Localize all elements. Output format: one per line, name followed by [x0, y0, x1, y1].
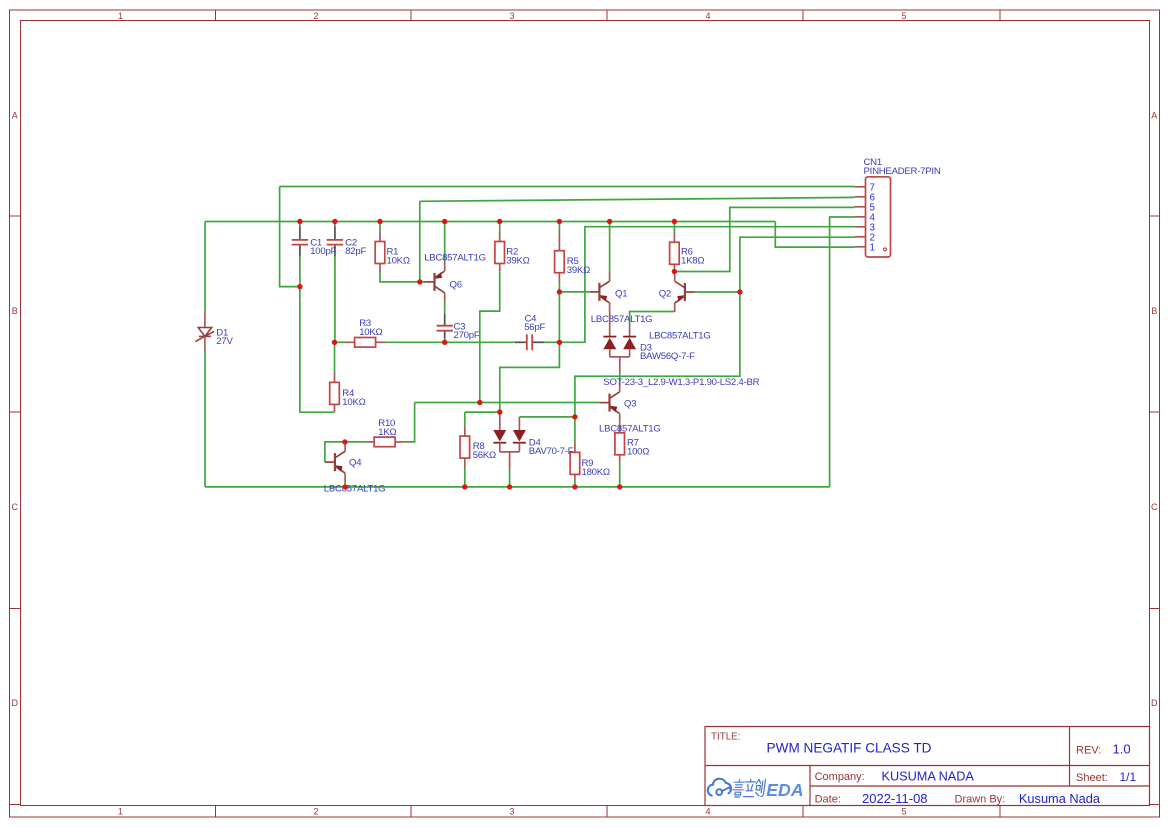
- wire rail to CN1 pin1: [775, 222, 854, 248]
- svg-text:A: A: [12, 111, 18, 121]
- wire rail to R5: [558, 222, 560, 230]
- svg-text:C: C: [12, 502, 19, 512]
- wire R3 right to C4 left: [386, 341, 515, 343]
- svg-text:B: B: [1151, 306, 1157, 316]
- svg-text:REV:: REV:: [1076, 744, 1101, 756]
- svg-text:Q6: Q6: [450, 279, 462, 290]
- transistor Q1: [589, 272, 609, 312]
- junction: [737, 289, 742, 294]
- wire main top rail: [205, 221, 775, 223]
- svg-text:PINHEADER-7PIN: PINHEADER-7PIN: [864, 166, 941, 177]
- junction: [297, 284, 302, 289]
- wire R5 node down to C4 node: [558, 292, 560, 342]
- wire R1 bottom to Q6 base node: [380, 272, 425, 282]
- junction: [297, 219, 302, 224]
- label C1: [310, 237, 336, 257]
- svg-text:BAW56Q-7-F: BAW56Q-7-F: [640, 351, 695, 362]
- wire rail to Q6 emitter: [444, 222, 446, 262]
- wire C4 node to CN1 pin3: [559, 227, 854, 343]
- wire node to R4 top: [334, 342, 336, 372]
- wire CN1 pin6 diagonal: [420, 197, 855, 201]
- svg-text:82pF: 82pF: [345, 246, 366, 257]
- svg-text:100Ω: 100Ω: [627, 446, 649, 457]
- svg-text:2: 2: [313, 11, 318, 21]
- transistor Q4: [325, 442, 345, 482]
- zener diode D1: [195, 312, 214, 351]
- wire D3 right pin: [629, 324, 631, 337]
- svg-text:SOT-23-3_L2.9-W1.3-P1.90-LS2.4: SOT-23-3_L2.9-W1.3-P1.90-LS2.4-BR: [603, 377, 759, 388]
- junction: [557, 340, 562, 345]
- resistor R8: [460, 426, 470, 468]
- junction: [497, 219, 502, 224]
- svg-text:Kusuma Nada: Kusuma Nada: [1019, 791, 1101, 806]
- dual diode D3: [603, 337, 636, 372]
- svg-text:10KΩ: 10KΩ: [342, 397, 365, 408]
- junction: [672, 219, 677, 224]
- wire rail to R2: [499, 222, 501, 232]
- wire left rail upper: [204, 222, 206, 313]
- wire bottom rail to CN1 pin4: [830, 217, 855, 487]
- svg-text:D: D: [12, 698, 19, 708]
- wire to R4 bottom: [300, 287, 335, 413]
- wire D4 tap to rail: [509, 469, 511, 487]
- title texts: [711, 732, 1137, 806]
- wire Q6 collector to C3: [444, 302, 446, 314]
- svg-text:LBC857ALT1G: LBC857ALT1G: [324, 484, 386, 495]
- wire D4 left node: [465, 411, 500, 413]
- wire R8 bottom to rail: [464, 468, 466, 487]
- label R3: [359, 318, 382, 338]
- label C3: [454, 321, 480, 341]
- wire left rail lower: [204, 351, 206, 487]
- transistor Q6: [425, 262, 445, 302]
- label R8: [473, 441, 496, 461]
- wire R9 bottom to rail: [574, 480, 576, 487]
- wire C1 bottom: [299, 257, 301, 287]
- label R9: [582, 458, 610, 478]
- wire pin6 vertical to Q6 base: [419, 201, 421, 282]
- svg-text:BAV70-7-F: BAV70-7-F: [529, 446, 574, 457]
- svg-text:Date:: Date:: [815, 794, 841, 806]
- svg-text:3: 3: [509, 806, 514, 816]
- junction: [607, 219, 612, 224]
- wire Q2 emitter to D3 right: [630, 312, 675, 325]
- wire rail to R6: [673, 222, 675, 233]
- wire CN1 pin7 net: [280, 186, 855, 188]
- wire CN1 pin2 net: [575, 237, 855, 417]
- CN1 pin numbers: [870, 182, 876, 253]
- label R2: [506, 246, 529, 266]
- label R7: [627, 438, 649, 458]
- svg-text:EDA: EDA: [766, 780, 803, 800]
- svg-text:2022-11-08: 2022-11-08: [862, 791, 928, 806]
- wire node to R9 top: [574, 417, 576, 443]
- svg-text:39KΩ: 39KΩ: [506, 255, 529, 266]
- label D4: [529, 437, 574, 457]
- label C4: [524, 314, 545, 334]
- label D1: [216, 327, 233, 347]
- resistor R4: [330, 372, 340, 412]
- label R10: [378, 418, 396, 438]
- wire rail to C1: [299, 222, 301, 227]
- junction: [672, 269, 677, 274]
- svg-text:TITLE:: TITLE:: [711, 732, 740, 743]
- svg-text:56pF: 56pF: [524, 322, 545, 333]
- wire rail to Q1 collector: [609, 222, 611, 272]
- connector CN1: [855, 177, 891, 257]
- resistor R7: [615, 423, 625, 463]
- label R6: [681, 247, 704, 267]
- svg-text:10KΩ: 10KΩ: [387, 255, 410, 266]
- wire R5 bottom: [558, 282, 560, 292]
- wire R10 right riser: [405, 403, 415, 442]
- svg-text:C: C: [1151, 502, 1158, 512]
- junction: [442, 219, 447, 224]
- svg-text:LBC857ALT1G: LBC857ALT1G: [599, 424, 661, 435]
- resistor R3: [345, 338, 386, 348]
- wire to R8 top: [464, 412, 466, 426]
- wire Q3 base net horizontal: [415, 402, 600, 404]
- svg-text:4: 4: [705, 806, 710, 816]
- junction: [377, 219, 382, 224]
- label CN1: [864, 157, 941, 177]
- svg-text:Q1: Q1: [615, 288, 627, 299]
- wire Q4 emitter to rail: [344, 482, 346, 487]
- svg-text:1: 1: [870, 242, 875, 253]
- junction: [557, 219, 562, 224]
- transistor Q2: [675, 272, 695, 312]
- svg-text:A: A: [1151, 111, 1157, 121]
- junction: [342, 439, 347, 444]
- wire pin7 net drop to C1: [280, 187, 300, 287]
- svg-text:5: 5: [901, 11, 906, 21]
- wire C4 node down to D4 left node: [500, 342, 560, 412]
- svg-text:B: B: [12, 306, 18, 316]
- junction: [342, 484, 347, 489]
- svg-text:LBC857ALT1G: LBC857ALT1G: [591, 314, 653, 325]
- transistor Q3: [600, 383, 620, 423]
- capacitor C3: [437, 314, 453, 339]
- wire C3 bottom to node: [444, 339, 446, 343]
- svg-text:1/1: 1/1: [1120, 770, 1137, 784]
- junction: [617, 484, 622, 489]
- wire node to R3 left: [335, 341, 345, 343]
- svg-text:Drawn By:: Drawn By:: [955, 794, 1006, 806]
- wire Q2 base to pin2 vertical: [695, 291, 740, 293]
- svg-text:180KΩ: 180KΩ: [582, 467, 610, 478]
- wire C2 bottom to R3 node: [334, 257, 336, 343]
- svg-text:56KΩ: 56KΩ: [473, 450, 496, 461]
- label R1: [387, 246, 410, 266]
- svg-text:3: 3: [509, 11, 514, 21]
- wire R7 bottom to rail: [619, 462, 621, 487]
- svg-text:Sheet:: Sheet:: [1076, 772, 1108, 784]
- wire R2 bottom to Q3 base net: [480, 271, 500, 402]
- junction: [462, 484, 467, 489]
- resistor R9: [570, 442, 580, 480]
- title block: [705, 727, 1150, 806]
- capacitor C2: [327, 226, 343, 256]
- junction: [442, 340, 447, 345]
- svg-text:5: 5: [901, 806, 906, 816]
- svg-text:100pF: 100pF: [310, 246, 336, 257]
- resistor R2: [495, 232, 505, 272]
- svg-text:1K8Ω: 1K8Ω: [681, 256, 704, 267]
- svg-text:KUSUMA NADA: KUSUMA NADA: [882, 769, 975, 783]
- svg-text:4: 4: [705, 11, 710, 21]
- resistor R10: [365, 437, 405, 447]
- label R4: [342, 388, 365, 408]
- svg-text:LBC857ALT1G: LBC857ALT1G: [649, 331, 711, 342]
- JLC EDA logo: [708, 779, 804, 800]
- junction: [332, 219, 337, 224]
- resistor R5: [555, 229, 565, 282]
- dual diode D4: [493, 412, 526, 469]
- resistor R6: [670, 232, 680, 271]
- wire C4 right to node: [544, 341, 559, 343]
- capacitor C1: [292, 226, 308, 256]
- svg-text:1KΩ: 1KΩ: [378, 427, 396, 438]
- label D3: [640, 342, 695, 362]
- label C2: [345, 237, 366, 257]
- junction: [417, 279, 422, 284]
- svg-text:LBC857ALT1G: LBC857ALT1G: [424, 252, 486, 263]
- resistor R1: [375, 232, 385, 273]
- svg-text:Q4: Q4: [349, 457, 362, 468]
- svg-text:D: D: [1151, 698, 1158, 708]
- wire R6 bottom to CN1 pin5: [674, 207, 854, 271]
- svg-text:10KΩ: 10KΩ: [359, 327, 382, 338]
- svg-text:1: 1: [118, 806, 123, 816]
- svg-text:Q3: Q3: [624, 399, 636, 410]
- wire node to Q1 base: [559, 291, 589, 293]
- svg-text:39KΩ: 39KΩ: [567, 265, 590, 276]
- junction: [557, 289, 562, 294]
- junction: [572, 484, 577, 489]
- junction: [572, 414, 577, 419]
- wire Q4 base loop: [325, 442, 345, 462]
- wire rail to R1: [379, 222, 381, 232]
- svg-text:27V: 27V: [216, 336, 233, 347]
- wire D4 right to R9 node: [519, 416, 575, 418]
- svg-text:270pF: 270pF: [454, 330, 480, 341]
- wire Q1 emitter to D3: [609, 312, 611, 337]
- wire D3 tap to Q3 collector: [619, 372, 621, 383]
- label R5: [567, 256, 590, 276]
- wire node to R10 left: [345, 441, 365, 443]
- wire rail to C2: [334, 222, 336, 227]
- capacitor C4: [515, 334, 545, 350]
- wire bottom rail: [205, 486, 830, 488]
- svg-text:Company:: Company:: [815, 771, 865, 783]
- junction: [332, 340, 337, 345]
- junction: [507, 484, 512, 489]
- svg-text:Q2: Q2: [659, 288, 671, 299]
- junction: [477, 400, 482, 405]
- svg-text:1.0: 1.0: [1113, 741, 1131, 756]
- junction: [497, 409, 502, 414]
- svg-text:1: 1: [118, 11, 123, 21]
- svg-text:PWM NEGATIF CLASS TD: PWM NEGATIF CLASS TD: [767, 741, 932, 756]
- svg-text:2: 2: [313, 806, 318, 816]
